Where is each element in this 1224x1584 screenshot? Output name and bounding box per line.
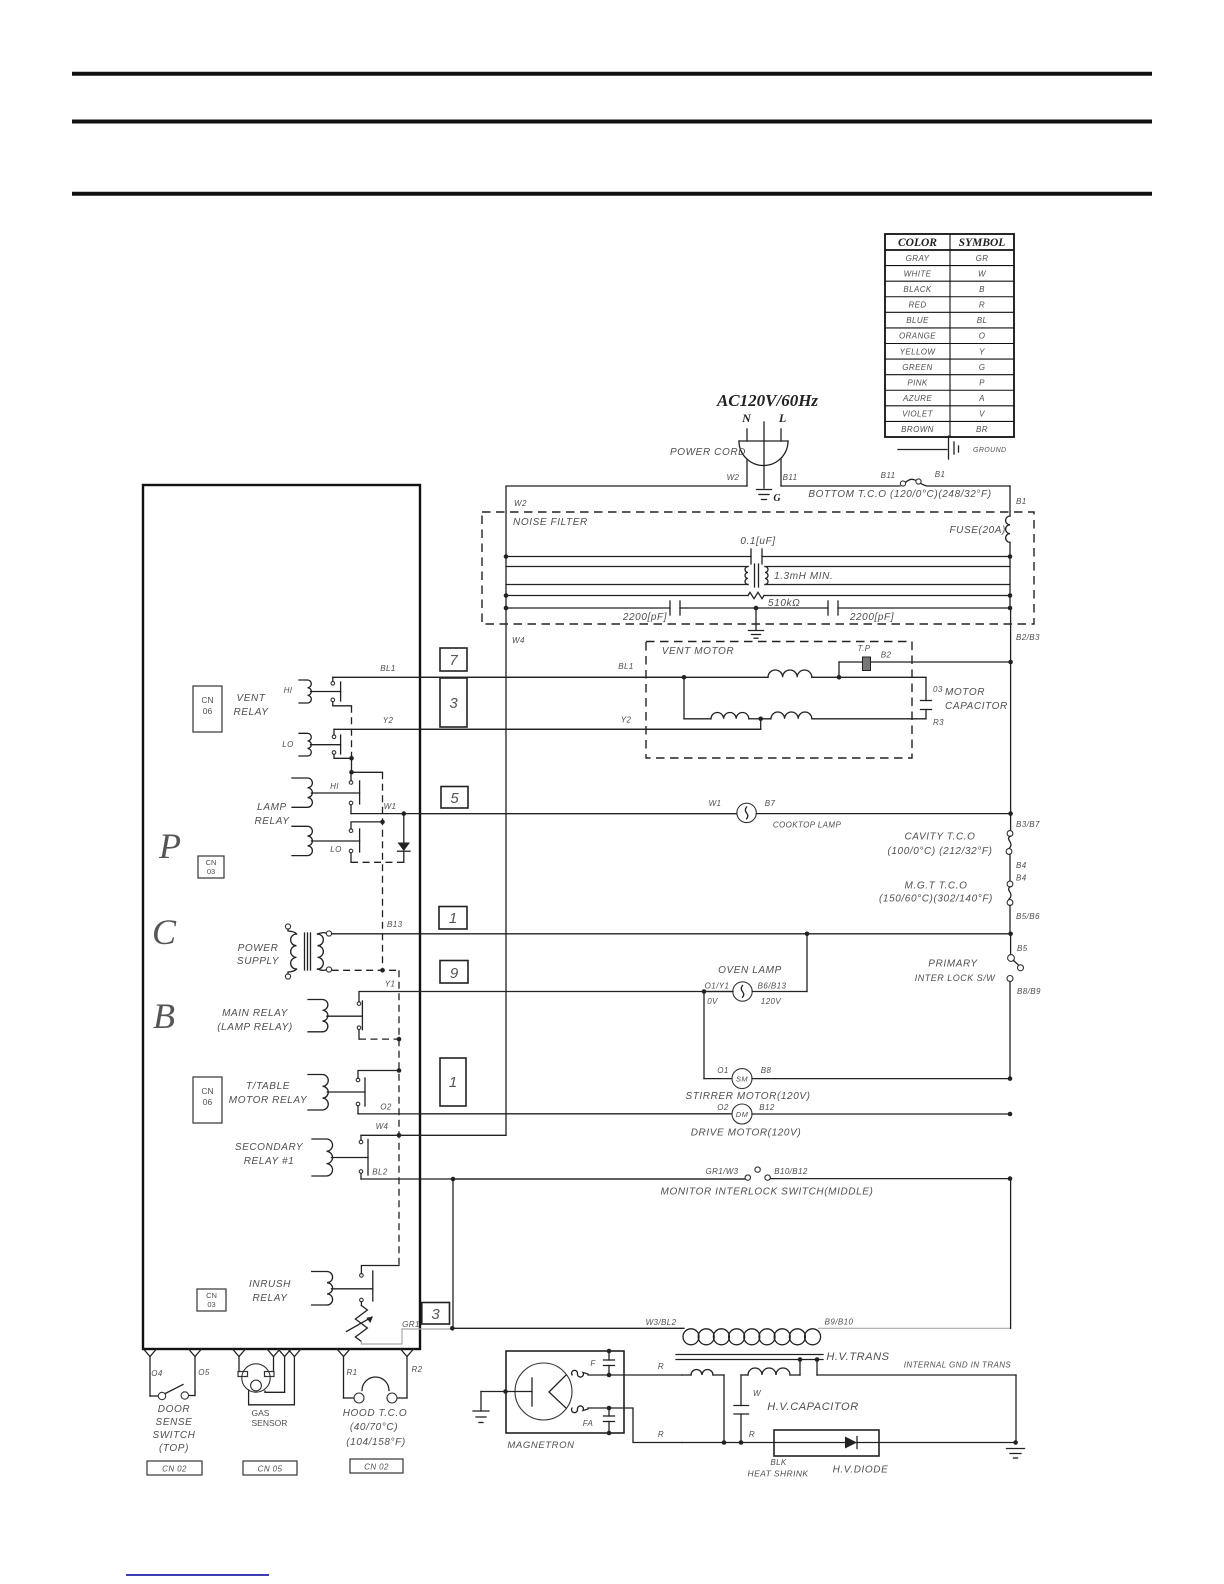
svg-text:A: A [978, 394, 985, 403]
connector CN 02 door [147, 1461, 202, 1475]
wire inrush top to dashed rail [361, 1266, 399, 1274]
svg-text:(TOP): (TOP) [159, 1443, 189, 1454]
svg-text:CN 02: CN 02 [162, 1465, 187, 1474]
svg-text:06: 06 [203, 1097, 213, 1107]
svg-text:GREEN: GREEN [902, 363, 932, 372]
svg-text:B7: B7 [765, 799, 776, 808]
svg-text:C: C [152, 912, 177, 952]
wire t/table top to rail [358, 1071, 399, 1079]
power supply transformer [285, 924, 331, 979]
svg-text:DRIVE MOTOR(120V): DRIVE MOTOR(120V) [691, 1128, 802, 1139]
lamp relay contact LO [349, 829, 353, 833]
svg-text:B: B [979, 285, 985, 294]
right rail down to HV [1010, 1179, 1012, 1329]
wire diode to ground [879, 1442, 1016, 1444]
svg-text:BROWN: BROWN [901, 425, 934, 434]
svg-text:B2/B3: B2/B3 [1016, 633, 1040, 642]
magnetron box [506, 1351, 624, 1433]
svg-text:HI: HI [284, 686, 293, 695]
svg-text:MOTOR RELAY: MOTOR RELAY [229, 1095, 308, 1106]
motor capacitor 03 [921, 677, 932, 719]
svg-text:GR1/W3: GR1/W3 [705, 1167, 738, 1176]
svg-text:7: 7 [449, 652, 458, 669]
svg-text:B12: B12 [759, 1103, 775, 1112]
svg-text:VENT MOTOR: VENT MOTOR [662, 646, 734, 657]
main relay contact [357, 1002, 361, 1006]
wire O2 [358, 1106, 733, 1114]
thermal protector T.P [839, 657, 1011, 677]
cavity TCO switch [1006, 814, 1013, 881]
control panel box [143, 485, 420, 1349]
cooktop lamp [737, 803, 1011, 822]
HV transformer secondary winding [741, 1357, 1016, 1375]
drive motor DM [421, 1104, 1010, 1124]
svg-text:RED: RED [908, 301, 926, 310]
door sense switch [150, 1385, 195, 1400]
svg-text:W4: W4 [512, 636, 525, 645]
wire vent HI contact bottom to dashed node [333, 702, 352, 706]
connector box 1b [440, 1058, 466, 1106]
main relay coil [308, 1000, 328, 1032]
inrush relay coil [312, 1272, 333, 1306]
svg-text:GAS: GAS [252, 1408, 270, 1418]
wire W4 from secondary relay [361, 1135, 506, 1140]
svg-text:BLK: BLK [770, 1458, 787, 1467]
svg-text:H.V.CAPACITOR: H.V.CAPACITOR [767, 1401, 859, 1413]
pin O5 [189, 1349, 202, 1357]
svg-text:F: F [590, 1359, 596, 1368]
right rail B1 down from filter [1010, 608, 1012, 662]
pin gas4 [288, 1349, 301, 1357]
choke 1.3mH windings [745, 564, 768, 587]
connector CN 06 vent relay [193, 686, 222, 732]
top rule 3 [72, 192, 1152, 196]
svg-text:R: R [979, 301, 985, 310]
svg-text:DM: DM [736, 1110, 749, 1119]
svg-text:Y: Y [979, 347, 985, 356]
svg-text:O1/Y1: O1/Y1 [705, 982, 730, 991]
svg-text:B11: B11 [783, 473, 798, 482]
svg-text:W4: W4 [376, 1122, 389, 1131]
svg-text:W: W [978, 269, 987, 278]
dashed rail down from lamp relay [382, 772, 384, 968]
svg-text:(150/60°C)(302/140°F): (150/60°C)(302/140°F) [879, 894, 993, 905]
svg-text:SUPPLY: SUPPLY [237, 956, 280, 967]
wire B13 from power supply [332, 933, 1011, 935]
svg-text:CN: CN [206, 858, 217, 867]
wire LO top to dashed rail [351, 822, 383, 829]
svg-text:YELLOW: YELLOW [900, 347, 937, 356]
svg-text:B6/B13: B6/B13 [758, 982, 787, 991]
t/table relay coil [308, 1075, 328, 1110]
svg-text:B10/B12: B10/B12 [774, 1167, 808, 1176]
svg-text:LO: LO [330, 845, 341, 854]
color-symbol table [885, 234, 1014, 437]
svg-text:BL2: BL2 [372, 1168, 388, 1177]
bottom T.C.O switch [900, 479, 1010, 486]
svg-text:BR: BR [976, 425, 988, 434]
svg-text:T.P: T.P [858, 644, 871, 653]
vent motor dashed box [646, 642, 912, 759]
junction B2/B3 [1008, 660, 1013, 665]
wire node right to dashed rail W1 [352, 771, 383, 773]
svg-text:LO: LO [282, 740, 293, 749]
wire GR1 gray [361, 1329, 452, 1344]
wire main relay bottom dashed to rail [359, 1030, 399, 1040]
svg-text:WHITE: WHITE [904, 269, 932, 278]
svg-text:0.1[uF]: 0.1[uF] [740, 536, 775, 547]
t/table relay contact [356, 1078, 360, 1082]
dashed rail Y1 down [398, 970, 400, 1265]
svg-text:H.V.TRANS: H.V.TRANS [826, 1351, 889, 1363]
svg-text:BOTTOM T.C.O (120/0°C)(248/32°: BOTTOM T.C.O (120/0°C)(248/32°F) [808, 489, 991, 500]
pin gas2 [267, 1349, 280, 1357]
svg-text:INTER LOCK S/W: INTER LOCK S/W [915, 973, 997, 983]
ground below noise filter [749, 608, 764, 638]
wire W1 [351, 813, 737, 815]
inrush resistor (thermistor) [347, 1302, 373, 1342]
svg-text:N: N [741, 411, 752, 425]
wire B1 vertical in filter [1009, 542, 1011, 608]
svg-text:B1: B1 [1016, 497, 1027, 506]
svg-text:B8: B8 [761, 1066, 772, 1075]
wire LO bottom to dashed [350, 853, 352, 863]
svg-text:CN: CN [206, 1291, 217, 1300]
wire oven lamp to stirrer [703, 992, 705, 1079]
svg-text:INTERNAL GND IN TRANS: INTERNAL GND IN TRANS [904, 1361, 1012, 1370]
connector box 7 [440, 648, 467, 671]
svg-text:GRAY: GRAY [906, 254, 930, 263]
vent motor aux winding [684, 677, 926, 721]
svg-text:COOKTOP LAMP: COOKTOP LAMP [773, 821, 842, 830]
wire W1 cooktop [421, 813, 737, 815]
capacitor 2200pF left [506, 601, 756, 615]
wire Y2 [334, 729, 761, 735]
svg-text:VENT: VENT [236, 693, 265, 704]
oven lamp [704, 982, 807, 1001]
svg-text:INRUSH: INRUSH [249, 1279, 291, 1290]
svg-text:POWER CORD: POWER CORD [670, 447, 746, 458]
svg-text:STIRRER MOTOR(120V): STIRRER MOTOR(120V) [685, 1091, 810, 1102]
HV transformer core [676, 1355, 823, 1360]
svg-text:0V: 0V [707, 997, 718, 1006]
svg-text:Y1: Y1 [385, 980, 396, 989]
svg-text:RELAY #1: RELAY #1 [244, 1156, 295, 1167]
wire W2 from plug to noise filter rail [506, 486, 747, 1135]
svg-text:P: P [979, 378, 985, 387]
connector CN 03 [198, 856, 224, 878]
svg-text:BL: BL [977, 316, 988, 325]
svg-text:W: W [753, 1389, 762, 1398]
svg-text:COLOR: COLOR [898, 237, 937, 249]
svg-text:PINK: PINK [907, 378, 928, 387]
diode CR lamp [398, 814, 411, 863]
svg-text:LAMP: LAMP [257, 802, 287, 813]
svg-text:SYMBOL: SYMBOL [959, 237, 1006, 249]
svg-text:W2: W2 [514, 499, 527, 508]
wire F to transformer [588, 1374, 682, 1376]
wire oven lamp drop [806, 934, 808, 992]
svg-text:POWER: POWER [238, 943, 279, 954]
svg-text:PRIMARY: PRIMARY [928, 959, 978, 970]
ground legend symbol [898, 436, 1007, 459]
svg-text:O2: O2 [380, 1103, 392, 1112]
svg-text:O5: O5 [198, 1368, 210, 1377]
svg-text:W3/BL2: W3/BL2 [646, 1318, 677, 1327]
svg-text:GR: GR [976, 254, 989, 263]
svg-text:CAPACITOR: CAPACITOR [945, 701, 1008, 712]
wire B11 from plug to bottom TCO [781, 485, 900, 487]
svg-text:2200[pF]: 2200[pF] [622, 612, 667, 623]
svg-text:BLACK: BLACK [903, 285, 931, 294]
HV diode [774, 1437, 879, 1449]
svg-text:L: L [778, 411, 786, 425]
svg-text:AC120V/60Hz: AC120V/60Hz [716, 391, 818, 410]
wire vent LO contact bottom [334, 754, 352, 758]
primary interlock switch [1007, 934, 1024, 1079]
node junction 2 [349, 770, 354, 775]
svg-text:1: 1 [449, 910, 457, 927]
svg-text:B4: B4 [1016, 861, 1027, 870]
svg-text:RELAY: RELAY [254, 816, 290, 827]
svg-text:B11: B11 [881, 471, 896, 480]
wire BL2 down to GR1 [452, 1179, 454, 1328]
svg-text:W2: W2 [727, 473, 740, 482]
svg-text:1: 1 [449, 1074, 457, 1091]
svg-text:CN: CN [201, 695, 213, 705]
fuse FUSE(20A) [1006, 516, 1010, 542]
wire internal gnd down [1015, 1375, 1017, 1443]
svg-text:NOISE FILTER: NOISE FILTER [513, 517, 588, 528]
svg-text:(100/0°C) (212/32°F): (100/0°C) (212/32°F) [887, 846, 992, 857]
svg-text:CAVITY T.C.O: CAVITY T.C.O [904, 832, 975, 843]
svg-text:CN 02: CN 02 [364, 1463, 389, 1472]
lamp relay contact HI [349, 781, 353, 785]
svg-text:1.3mH MIN.: 1.3mH MIN. [774, 571, 833, 582]
feedthrough capacitor F [604, 1349, 615, 1378]
vent relay coil HI [299, 680, 311, 703]
vent motor main winding [684, 670, 926, 677]
svg-text:B: B [153, 996, 175, 1036]
HV capacitor [734, 1375, 749, 1443]
svg-text:R: R [749, 1430, 755, 1439]
svg-text:RELAY: RELAY [252, 1293, 288, 1304]
svg-text:Y2: Y2 [621, 716, 632, 725]
capacitor 2200pF right [756, 601, 1010, 615]
svg-text:GROUND: GROUND [973, 447, 1007, 454]
svg-text:VIOLET: VIOLET [902, 410, 934, 419]
ground G under plug [757, 466, 772, 500]
node junction [349, 756, 354, 761]
stirrer motor SM [704, 1069, 1010, 1089]
hood TCO [344, 1377, 408, 1403]
wire node to HI contact [350, 774, 352, 781]
HV transformer filament winding [682, 1370, 724, 1443]
svg-text:O4: O4 [151, 1369, 163, 1378]
dashed wire power supply bottom [332, 969, 399, 971]
wire GR1 to HV transformer [452, 1327, 684, 1329]
svg-text:B5/B6: B5/B6 [1016, 912, 1040, 921]
svg-text:B1: B1 [935, 470, 946, 479]
svg-text:R2: R2 [411, 1365, 422, 1374]
connector box 5 [441, 787, 468, 809]
svg-text:2200[pF]: 2200[pF] [849, 612, 894, 623]
svg-text:OVEN LAMP: OVEN LAMP [718, 965, 782, 976]
wire FA to cathode return [588, 1408, 682, 1443]
connector CN 02 hood [350, 1459, 403, 1473]
svg-text:MAGNETRON: MAGNETRON [507, 1440, 574, 1451]
svg-text:MOTOR: MOTOR [945, 687, 985, 698]
svg-text:HOOD T.C.O: HOOD T.C.O [343, 1408, 408, 1419]
svg-text:MONITOR INTERLOCK SWITCH(MIDDL: MONITOR INTERLOCK SWITCH(MIDDLE) [661, 1187, 874, 1198]
dashed wire LO bottom to diode [351, 861, 404, 863]
vent relay coil LO [299, 733, 311, 756]
svg-text:RELAY: RELAY [233, 707, 269, 718]
svg-text:03: 03 [933, 685, 943, 694]
svg-text:V: V [979, 410, 985, 419]
lamp relay coil LO [292, 826, 312, 855]
footer blue rule [126, 1574, 269, 1576]
svg-text:SENSE: SENSE [156, 1417, 193, 1428]
choke 1.3mH top winding wires [506, 567, 1010, 585]
wire Y1 horizontal [359, 992, 733, 1002]
svg-text:SWITCH: SWITCH [152, 1430, 195, 1441]
svg-text:P: P [158, 826, 181, 866]
svg-text:5: 5 [450, 790, 459, 807]
svg-text:HI: HI [330, 782, 339, 791]
svg-text:T/TABLE: T/TABLE [246, 1081, 290, 1092]
svg-text:H.V.DIODE: H.V.DIODE [833, 1465, 889, 1476]
connector CN 03 inrush [197, 1289, 226, 1311]
power cord plug [739, 422, 788, 486]
junction diode branch [402, 811, 407, 816]
svg-text:SENSOR: SENSOR [252, 1418, 288, 1428]
connector CN 05 [243, 1461, 297, 1475]
dashed wire down to lamp relay [351, 706, 353, 756]
svg-text:06: 06 [203, 706, 213, 716]
bottom HV wire [682, 1440, 774, 1445]
svg-text:GR1: GR1 [402, 1320, 420, 1329]
gas sensor [238, 1364, 294, 1405]
wire B1 down to fuse [1009, 486, 1011, 516]
connector CN 06 t-table [193, 1077, 222, 1123]
HV transformer primary [683, 1329, 821, 1345]
svg-text:BL1: BL1 [380, 664, 395, 673]
pin gas3 [278, 1349, 291, 1357]
capacitor 0.1uF [506, 549, 1010, 564]
pin gas1 [233, 1349, 246, 1357]
svg-text:9: 9 [450, 965, 459, 982]
monitor interlock switch [453, 1167, 1010, 1180]
noise filter dashed box [482, 512, 1034, 624]
junction GR1 [450, 1326, 455, 1331]
junction B13 right [1008, 932, 1013, 937]
top rule 1 [72, 72, 1152, 76]
svg-text:SM: SM [736, 1075, 748, 1084]
svg-text:DOOR: DOOR [158, 1404, 190, 1415]
wire BL1 into vent motor [421, 676, 684, 678]
svg-text:3: 3 [449, 695, 458, 712]
ground right [1007, 1449, 1025, 1459]
svg-text:B2: B2 [881, 651, 892, 660]
wire BL2 [361, 1173, 745, 1179]
lamp relay coil HI [292, 778, 312, 807]
svg-text:AZURE: AZURE [902, 394, 932, 403]
svg-text:B4: B4 [1016, 874, 1027, 883]
svg-text:O: O [979, 332, 986, 341]
wire B9/B10 gray [818, 1327, 1011, 1329]
secondary relay coil [312, 1139, 333, 1176]
svg-text:B3/B7: B3/B7 [1016, 820, 1040, 829]
svg-text:CN: CN [201, 1086, 213, 1096]
svg-text:G: G [773, 493, 781, 504]
svg-text:R1: R1 [346, 1368, 357, 1377]
wire lamp HI contact bottom to W1 wire [350, 805, 352, 814]
resistor 510k wire [506, 592, 1010, 598]
svg-text:M.G.T T.C.O: M.G.T T.C.O [905, 881, 968, 892]
svg-text:G: G [979, 363, 986, 372]
svg-text:BLUE: BLUE [906, 316, 929, 325]
svg-text:W1: W1 [384, 802, 397, 811]
ground left of magnetron [473, 1389, 508, 1422]
svg-text:W1: W1 [709, 799, 722, 808]
vent relay contact HI [331, 682, 335, 686]
secondary relay contact [359, 1140, 363, 1144]
HV diode box [774, 1430, 879, 1456]
connector box 3 [440, 678, 467, 727]
feedthrough capacitor FA [604, 1406, 615, 1436]
svg-text:R: R [658, 1362, 664, 1371]
svg-text:HEAT SHRINK: HEAT SHRINK [748, 1469, 809, 1479]
svg-text:120V: 120V [761, 997, 782, 1006]
svg-text:B5: B5 [1017, 944, 1028, 953]
svg-text:(LAMP RELAY): (LAMP RELAY) [217, 1022, 293, 1033]
svg-text:R: R [658, 1430, 664, 1439]
svg-text:03: 03 [207, 1300, 215, 1309]
connector box 1a [439, 907, 467, 930]
inrush relay contact [360, 1274, 364, 1278]
svg-text:FUSE(20A): FUSE(20A) [949, 525, 1006, 536]
pin R2 [401, 1349, 414, 1357]
svg-text:BL1: BL1 [618, 662, 633, 671]
svg-text:MAIN RELAY: MAIN RELAY [222, 1008, 289, 1019]
svg-text:CN 05: CN 05 [258, 1465, 283, 1474]
svg-text:SECONDARY: SECONDARY [235, 1142, 304, 1153]
svg-text:B8/B9: B8/B9 [1017, 987, 1041, 996]
svg-text:ORANGE: ORANGE [899, 332, 936, 341]
pin R1 [337, 1349, 350, 1357]
svg-text:B9/B10: B9/B10 [825, 1318, 854, 1327]
svg-text:R3: R3 [933, 718, 944, 727]
magnetron tube [506, 1363, 588, 1420]
MGT TCO switch [1007, 881, 1013, 934]
vent relay contact LO [332, 735, 336, 739]
svg-text:03: 03 [207, 867, 215, 876]
pin O4 [144, 1349, 157, 1357]
svg-text:O2: O2 [717, 1103, 729, 1112]
svg-text:3: 3 [431, 1306, 440, 1323]
wire Y2 into vent motor [421, 719, 761, 730]
svg-text:O1: O1 [717, 1066, 728, 1075]
connector box 9 [440, 961, 468, 984]
svg-text:(40/70°C): (40/70°C) [350, 1422, 398, 1433]
top rule 2 [72, 120, 1152, 124]
svg-text:FA: FA [583, 1419, 593, 1428]
connector box 3b [422, 1303, 450, 1325]
wire BL1 [333, 677, 684, 681]
svg-text:B13: B13 [387, 920, 403, 929]
svg-text:Y2: Y2 [383, 716, 394, 725]
